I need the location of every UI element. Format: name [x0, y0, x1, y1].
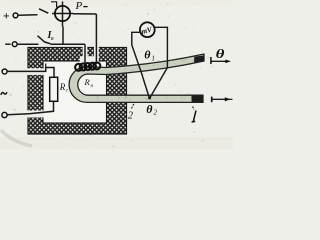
switch blade S2	[38, 36, 51, 44]
thermostat block hatched body	[28, 48, 127, 135]
svg-text:2: 2	[154, 109, 158, 117]
wall gap for upper left wire	[27, 68, 44, 75]
wire - to heater lead	[51, 43, 85, 45]
switch contact bracket	[51, 2, 57, 8]
mV left wire to junction θ1	[132, 32, 150, 98]
wire from + terminal	[18, 14, 38, 16]
svg-text:θ: θ	[144, 48, 151, 62]
heater lead left	[84, 44, 86, 64]
terminal ~ lower	[2, 112, 7, 117]
wire stub wall	[45, 64, 47, 68]
wire Rг bottom	[29, 101, 54, 114]
terminal -	[5, 43, 10, 45]
svg-text:R: R	[59, 82, 66, 92]
resistor Rг	[50, 77, 58, 101]
tube 1 dark end (inlet)	[192, 95, 204, 102]
tube 2 dark end (outlet)	[194, 55, 204, 62]
svg-text:R: R	[84, 77, 91, 87]
wire from - terminal	[17, 43, 38, 45]
wire wattmeter to heater	[73, 13, 96, 15]
svg-text:θ: θ	[146, 102, 153, 116]
block inner cavity	[43, 61, 107, 123]
wattmeter P	[62, 2, 64, 27]
svg-text:P: P	[75, 0, 83, 12]
heater lead right	[95, 14, 97, 64]
wattmeter voltage wire down	[62, 27, 64, 45]
faint bottom wash	[0, 137, 233, 149]
svg-text:2: 2	[128, 110, 134, 121]
svg-text:θ: θ	[216, 48, 225, 62]
faint scan smudge bottom-left	[1, 130, 32, 146]
wall gap for heater leads	[83, 46, 88, 61]
tube speckle	[97, 57, 198, 100]
label 1 with leader	[192, 111, 196, 122]
svg-text:1: 1	[152, 55, 156, 63]
svg-text:г: г	[66, 89, 68, 94]
switch blade S1	[39, 9, 48, 13]
svg-text:+: +	[3, 11, 10, 23]
scan noise speckle	[1, 2, 232, 148]
heater coil Rн	[75, 62, 100, 70]
junction dot θ2 apex	[148, 97, 151, 100]
wire to Rг top	[7, 68, 54, 78]
millivoltmeter mV	[140, 22, 155, 37]
U-tube	[69, 54, 204, 102]
terminal ~ upper	[2, 69, 7, 74]
~ symbol	[1, 92, 7, 95]
wire lower terminal	[7, 114, 29, 115]
flow arrow bottom	[211, 97, 213, 103]
svg-text:в: в	[51, 36, 54, 42]
mV right wire to junction θ2	[150, 27, 168, 98]
flow arrow top	[210, 57, 212, 64]
wall gap for lower left wire	[27, 111, 44, 118]
